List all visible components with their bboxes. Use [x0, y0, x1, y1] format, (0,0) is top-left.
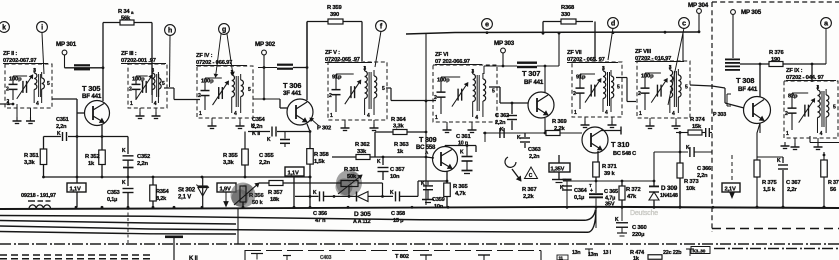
- svg-text:2: 2: [573, 91, 576, 97]
- svg-text:2: 2: [329, 93, 332, 99]
- svg-text:2,2r: 2,2r: [787, 187, 797, 193]
- svg-text:5: 5: [685, 84, 688, 90]
- svg-text:e: e: [485, 22, 489, 29]
- svg-text:C403: C403: [320, 255, 332, 260]
- svg-text:1: 1: [639, 111, 642, 117]
- svg-text:St 302: St 302: [178, 187, 196, 194]
- svg-text:2: 2: [7, 99, 10, 105]
- svg-text:P 303: P 303: [713, 112, 726, 118]
- svg-text:15k: 15k: [692, 124, 702, 130]
- svg-text:R 355: R 355: [223, 153, 238, 159]
- svg-text:5: 5: [47, 81, 50, 87]
- svg-text:1,5 k: 1,5 k: [763, 187, 776, 193]
- svg-text:10n: 10n: [390, 174, 400, 180]
- svg-text:BF 441: BF 441: [524, 79, 544, 86]
- svg-text:33k: 33k: [357, 149, 367, 155]
- svg-text:R 367: R 367: [522, 187, 536, 193]
- svg-text:MP 301: MP 301: [56, 41, 77, 48]
- svg-text:K: K: [560, 185, 564, 191]
- svg-text:C351: C351: [56, 117, 69, 123]
- svg-text:R 362: R 362: [355, 142, 369, 148]
- svg-text:3: 3: [669, 65, 672, 71]
- svg-text:1: 1: [130, 101, 133, 107]
- svg-text:2,2n: 2,2n: [259, 160, 270, 166]
- svg-text:2: 2: [638, 91, 641, 97]
- svg-text:K3..30: K3..30: [693, 249, 706, 254]
- svg-text:R 34: R 34: [118, 9, 130, 15]
- svg-text:K: K: [267, 137, 271, 143]
- svg-text:T: T: [589, 183, 592, 188]
- svg-text:i: i: [41, 25, 43, 32]
- svg-text:K: K: [777, 158, 781, 164]
- svg-text:2,2n: 2,2n: [495, 120, 506, 126]
- svg-text:1: 1: [330, 113, 333, 119]
- svg-text:1k: 1k: [397, 149, 404, 155]
- svg-text:R 376: R 376: [769, 50, 784, 56]
- svg-text:k: k: [2, 25, 6, 32]
- svg-text:C354: C354: [252, 117, 266, 123]
- svg-text:4: 4: [36, 101, 39, 107]
- svg-text:91p: 91p: [576, 75, 586, 81]
- svg-text:D 305: D 305: [354, 211, 371, 218]
- svg-text:R368: R368: [561, 5, 575, 11]
- svg-text:3: 3: [363, 66, 366, 72]
- svg-text:10k: 10k: [686, 186, 696, 192]
- svg-text:ZF VIII: ZF VIII: [635, 49, 652, 55]
- svg-text:1: 1: [574, 110, 577, 116]
- svg-text:T 802: T 802: [395, 254, 409, 260]
- svg-text:1: 1: [435, 115, 438, 121]
- svg-text:K: K: [313, 190, 317, 196]
- svg-text:3F 441: 3F 441: [283, 90, 302, 97]
- svg-text:K: K: [122, 148, 126, 154]
- svg-text:T 309: T 309: [419, 135, 437, 144]
- svg-text:2: 2: [129, 86, 132, 92]
- svg-text:3: 3: [602, 66, 605, 72]
- svg-text:2: 2: [6, 86, 9, 92]
- svg-text:R 371: R 371: [602, 164, 617, 170]
- svg-text:18k: 18k: [270, 197, 280, 203]
- svg-text:4: 4: [820, 131, 823, 137]
- svg-text:R 377: R 377: [828, 180, 839, 186]
- svg-text:ZF VI: ZF VI: [435, 52, 449, 58]
- svg-text:3,3k: 3,3k: [24, 160, 35, 166]
- svg-text:R 357: R 357: [268, 190, 282, 196]
- svg-text:C 361: C 361: [456, 134, 471, 140]
- svg-text:K: K: [615, 217, 619, 223]
- svg-text:39 k: 39 k: [604, 171, 615, 177]
- svg-text:2,2n: 2,2n: [56, 124, 67, 130]
- svg-text:C 362: C 362: [495, 113, 509, 119]
- svg-text:2: 2: [198, 93, 201, 99]
- svg-text:C363: C363: [528, 147, 541, 153]
- svg-text:C 366: C 366: [697, 166, 711, 172]
- svg-text:C 360: C 360: [632, 225, 646, 231]
- svg-text:K II: K II: [189, 256, 198, 260]
- svg-text:R 361: R 361: [344, 167, 359, 173]
- svg-text:K: K: [421, 181, 425, 187]
- svg-text:C: C: [529, 173, 533, 179]
- svg-text:4: 4: [154, 101, 157, 107]
- svg-text:56k: 56k: [121, 16, 131, 22]
- svg-text:Deutsche: Deutsche: [630, 210, 658, 217]
- svg-text:K: K: [122, 180, 126, 186]
- svg-text:R 356: R 356: [249, 193, 264, 199]
- svg-text:5: 5: [382, 86, 385, 92]
- svg-text:C 365: C 365: [604, 189, 618, 195]
- svg-text:2: 2: [785, 111, 788, 117]
- svg-text:390: 390: [330, 12, 339, 18]
- svg-text:ZF II :: ZF II :: [3, 51, 17, 57]
- svg-text:T 310: T 310: [611, 140, 629, 149]
- svg-text:100p: 100p: [437, 78, 450, 84]
- svg-text:220µ: 220µ: [632, 232, 644, 238]
- svg-text:C353: C353: [107, 190, 120, 196]
- svg-text:2,2k: 2,2k: [554, 126, 565, 132]
- svg-text:1: 1: [199, 111, 202, 117]
- svg-text:330: 330: [561, 12, 570, 18]
- svg-text:2,2n: 2,2n: [137, 161, 148, 167]
- svg-text:MP 304: MP 304: [688, 2, 709, 9]
- svg-text:C 357: C 357: [390, 167, 404, 173]
- svg-text:h: h: [168, 28, 172, 35]
- svg-text:4: 4: [672, 111, 675, 117]
- svg-text:91p: 91p: [332, 75, 342, 81]
- svg-text:47k: 47k: [627, 194, 637, 200]
- svg-text:ZF IV :: ZF IV :: [196, 53, 213, 59]
- svg-text:C364: C364: [574, 188, 588, 194]
- svg-text:3: 3: [231, 70, 234, 76]
- svg-text:K: K: [460, 150, 464, 156]
- svg-text:5: 5: [248, 87, 251, 93]
- svg-text:BF 441: BF 441: [738, 86, 758, 93]
- svg-text:1,5k: 1,5k: [314, 159, 325, 165]
- svg-text:T 306: T 306: [283, 81, 301, 90]
- svg-text:ZF IX :: ZF IX :: [786, 68, 803, 74]
- svg-text:0,1µ: 0,1µ: [107, 197, 117, 203]
- svg-text:3,3k: 3,3k: [393, 124, 404, 130]
- svg-text:+: +: [590, 188, 593, 194]
- svg-text:1,9V: 1,9V: [220, 187, 231, 193]
- svg-text:R 363: R 363: [394, 142, 409, 148]
- svg-text:R 359: R 359: [327, 5, 342, 11]
- svg-text:K: K: [686, 145, 690, 151]
- svg-text:11: 11: [559, 256, 564, 260]
- svg-text:a: a: [824, 21, 828, 28]
- svg-text:ZF III :: ZF III :: [121, 51, 137, 57]
- svg-text:50k: 50k: [347, 174, 357, 180]
- svg-text:100p: 100p: [201, 79, 214, 85]
- svg-text:2,2k: 2,2k: [523, 194, 534, 200]
- svg-text:R 369: R 369: [552, 119, 567, 125]
- svg-text:13n: 13n: [572, 250, 580, 256]
- svg-text:100p: 100p: [641, 74, 654, 80]
- svg-text:82p: 82p: [788, 94, 798, 100]
- svg-text:c: c: [682, 21, 686, 28]
- svg-text:5: 5: [492, 88, 495, 94]
- svg-text:R 372: R 372: [626, 187, 640, 193]
- svg-text:3: 3: [33, 68, 36, 74]
- svg-text:13m: 13m: [588, 252, 598, 258]
- svg-text:R 373: R 373: [684, 179, 699, 185]
- svg-text:C 358: C 358: [391, 211, 405, 217]
- svg-text:C 356: C 356: [313, 211, 327, 217]
- svg-text:C359: C359: [432, 197, 445, 203]
- svg-text:4: 4: [367, 113, 370, 119]
- svg-text:3: 3: [471, 69, 474, 75]
- svg-text:5: 5: [162, 81, 165, 87]
- svg-text:K: K: [517, 135, 521, 141]
- svg-text:R 365: R 365: [453, 184, 468, 190]
- svg-text:T 305: T 305: [82, 84, 100, 93]
- svg-text:T 307: T 307: [522, 69, 540, 78]
- svg-text:D 309: D 309: [661, 185, 678, 192]
- svg-text:MP 302: MP 302: [255, 41, 276, 48]
- svg-text:2,2n: 2,2n: [697, 173, 708, 179]
- svg-text:A A 112: A A 112: [353, 219, 371, 225]
- svg-text:K: K: [251, 124, 255, 130]
- svg-text:MP 303: MP 303: [494, 40, 515, 47]
- svg-text:3,3k: 3,3k: [223, 160, 234, 166]
- svg-text:1,1V: 1,1V: [288, 171, 299, 177]
- svg-text:2,2n: 2,2n: [529, 154, 540, 160]
- svg-text:1k: 1k: [88, 161, 95, 167]
- svg-text:C 367: C 367: [786, 180, 800, 186]
- svg-text:2,1 V: 2,1 V: [178, 195, 191, 201]
- svg-text:50 k: 50 k: [252, 200, 263, 206]
- svg-text:ZF VII: ZF VII: [567, 50, 582, 56]
- svg-text:56: 56: [830, 187, 837, 193]
- svg-text:8,2k: 8,2k: [156, 196, 167, 202]
- svg-text:d: d: [611, 21, 615, 28]
- svg-text:P 302: P 302: [317, 126, 331, 132]
- svg-text:1: 1: [786, 131, 789, 137]
- svg-text:1N4148: 1N4148: [660, 193, 678, 199]
- svg-text:ZF V :: ZF V :: [325, 50, 340, 56]
- svg-text:MP 305: MP 305: [741, 9, 762, 16]
- svg-text:5: 5: [617, 84, 620, 90]
- svg-text:4,7k: 4,7k: [455, 191, 466, 197]
- svg-text:22c 22b: 22c 22b: [663, 250, 682, 256]
- svg-text:0,1µ: 0,1µ: [574, 195, 584, 201]
- svg-text:100p: 100p: [9, 77, 22, 83]
- svg-text:4: 4: [605, 110, 608, 116]
- svg-text:R354: R354: [156, 189, 170, 195]
- svg-text:C 355: C 355: [259, 153, 274, 159]
- svg-text:R 374: R 374: [690, 117, 705, 123]
- svg-text:R 358: R 358: [314, 152, 329, 158]
- svg-text:R 351: R 351: [24, 153, 39, 159]
- svg-text:K: K: [377, 159, 381, 165]
- svg-text:1,35V: 1,35V: [551, 167, 565, 173]
- svg-text:R 375: R 375: [762, 180, 777, 186]
- svg-text:09218 - 191,97: 09218 - 191,97: [21, 193, 56, 199]
- svg-text:R 364: R 364: [391, 117, 406, 123]
- svg-text:R 352: R 352: [85, 154, 99, 160]
- svg-text:13 l: 13 l: [603, 250, 612, 256]
- svg-text:K: K: [390, 190, 394, 196]
- svg-text:4: 4: [234, 111, 237, 117]
- svg-text:BF 441: BF 441: [82, 93, 102, 100]
- svg-text:C352: C352: [137, 154, 150, 160]
- svg-text:T 308: T 308: [736, 76, 754, 85]
- svg-text:BC 548 C: BC 548 C: [613, 151, 636, 157]
- svg-text:g: g: [222, 27, 226, 34]
- svg-text:1,1V: 1,1V: [70, 187, 81, 193]
- svg-text:2,1V: 2,1V: [725, 187, 736, 193]
- svg-text:5: 5: [833, 104, 836, 110]
- svg-text:4: 4: [475, 115, 478, 121]
- svg-text:10 n: 10 n: [458, 140, 468, 146]
- svg-text:3: 3: [151, 68, 154, 74]
- svg-text:3: 3: [816, 85, 819, 91]
